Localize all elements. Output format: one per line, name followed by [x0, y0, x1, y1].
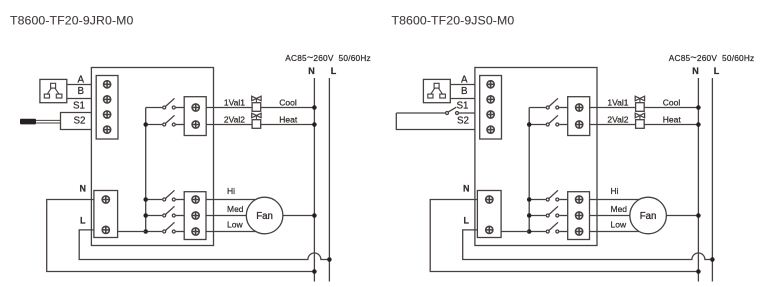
svg-text:S1: S1: [73, 101, 85, 112]
wire relay switch K4 (Med) to terminal: [176, 215, 184, 217]
power terminal block N/L: [477, 191, 501, 238]
L supply wire (vertical): [328, 78, 330, 282]
terminal S2 screw: [487, 126, 494, 133]
wire relay switch K3 (Hi) to terminal: [176, 199, 184, 201]
svg-text:AC85~260V 50/60Hz: AC85~260V 50/60Hz: [285, 52, 371, 64]
wire bus to relay switch K3 (Hi): [146, 199, 162, 201]
L feed wire with hop over N: [463, 230, 713, 260]
svg-text:Cool: Cool: [279, 98, 297, 108]
junction L feed/L: [327, 257, 332, 262]
wire switch to S1 terminal: [459, 112, 475, 114]
terminal S2 screw: [104, 126, 111, 133]
fan terminal Hi screw: [576, 196, 583, 203]
sensor lead wires: [36, 120, 61, 123]
svg-text:S1: S1: [457, 101, 469, 112]
svg-text:L: L: [714, 66, 720, 76]
svg-text:Med: Med: [227, 204, 244, 214]
fan motor: [630, 197, 667, 234]
fan terminal block: [184, 192, 206, 240]
svg-text:L: L: [464, 215, 470, 225]
svg-text:Heat: Heat: [663, 115, 682, 125]
relay switch K3 (Hi): [163, 190, 176, 201]
wire relay switch K2 to terminal: [176, 124, 184, 126]
relay switch K2: [163, 115, 176, 126]
external switch (S1/S2): [446, 107, 459, 114]
L supply wire (vertical): [711, 78, 713, 282]
thermostat outline: [91, 68, 213, 246]
fan terminal Med screw: [192, 212, 199, 219]
svg-text:Heat: Heat: [279, 115, 298, 125]
sensor wire to S2: [61, 120, 92, 129]
valve terminal 2 screw: [192, 121, 199, 128]
wire fan to N: [283, 215, 315, 217]
relay switch K1: [546, 98, 559, 109]
terminal L screw: [102, 226, 109, 233]
wire bus to relay switch K4 (Med): [146, 215, 162, 217]
relay switch K2: [546, 115, 559, 126]
terminal L screw: [486, 226, 493, 233]
svg-text:2Val2: 2Val2: [607, 115, 628, 125]
fan terminal Low screw: [192, 228, 199, 235]
wire relay switch K1 to terminal: [176, 107, 184, 109]
thermostat outline: [475, 68, 597, 246]
wire Hi to fan: [206, 199, 256, 201]
svg-text:Hi: Hi: [611, 186, 619, 196]
wire Hi to fan: [590, 199, 640, 201]
power terminal block N/L: [94, 191, 118, 238]
svg-text:L: L: [80, 215, 86, 225]
wire bus to relay switch K3 (Hi): [529, 199, 545, 201]
terminal N screw: [486, 196, 493, 203]
wire bus to relay switch K1: [529, 107, 545, 109]
wire valve terminal to valve V1: [206, 107, 252, 109]
svg-text:Fan: Fan: [256, 211, 273, 222]
wire relay switch K4 (Med) to terminal: [559, 215, 567, 217]
valve terminal 2 screw: [576, 121, 583, 128]
wire bus to relay switch K5 (Low): [529, 231, 545, 233]
terminal block A/B/S1/S2: [480, 76, 502, 140]
wire valve terminal to valve V2: [206, 124, 252, 126]
N supply wire (vertical): [697, 78, 699, 282]
relay common bus: [145, 108, 147, 232]
wire bus to relay switch K1: [146, 107, 162, 109]
valve terminal 1 screw: [576, 104, 583, 111]
terminal A screw: [104, 81, 111, 88]
svg-text:T8600-TF20-9JR0-M0: T8600-TF20-9JR0-M0: [10, 14, 134, 28]
valve terminal block: [184, 97, 206, 136]
junction bus/K3: [143, 197, 148, 202]
svg-text:Cool: Cool: [663, 98, 681, 108]
wire L terminal to bus: [501, 231, 529, 233]
svg-text:N: N: [80, 183, 87, 193]
wire L terminal to bus: [118, 231, 146, 233]
wire valve V1 to N: [261, 107, 315, 109]
wire relay switch K1 to terminal: [559, 107, 567, 109]
wire S1 to external switch: [396, 112, 445, 114]
wire valve terminal to valve V2: [590, 124, 636, 126]
fan terminal block: [568, 192, 590, 240]
communication module (network icon): [40, 79, 67, 102]
svg-text:1Val1: 1Val1: [224, 98, 245, 108]
junction fan/N: [312, 213, 317, 218]
valve V2: [635, 113, 644, 128]
terminal B screw: [104, 96, 111, 103]
wire valve V2 to N: [261, 124, 315, 126]
left diagram: T8600-TF20-9JR0-M0: [10, 14, 371, 282]
svg-text:N: N: [308, 66, 315, 76]
wire bus to relay switch K4 (Med): [529, 215, 545, 217]
wire fan to N: [666, 215, 698, 217]
wire A: [451, 84, 475, 86]
terminal block A/B/S1/S2: [96, 76, 118, 140]
valve V1: [252, 96, 261, 111]
wire bus to relay switch K2: [146, 124, 162, 126]
relay common bus: [528, 108, 530, 232]
valve terminal 1 screw: [192, 104, 199, 111]
fan motor: [246, 197, 283, 234]
switch loop wire to S2: [396, 113, 475, 130]
valve V1: [635, 96, 644, 111]
svg-text:Hi: Hi: [227, 186, 235, 196]
terminal A screw: [487, 81, 494, 88]
relay switch K5 (Low): [546, 222, 559, 233]
svg-text:Low: Low: [227, 220, 243, 230]
relay switch K1: [163, 98, 176, 109]
N supply wire (vertical): [313, 78, 315, 282]
svg-text:Fan: Fan: [640, 211, 657, 222]
wire valve terminal to valve V1: [590, 107, 636, 109]
N return wire: [47, 200, 315, 272]
sensor wire to S1: [61, 113, 92, 121]
junction valve V2/N: [312, 122, 317, 127]
temperature sensor probe: [20, 119, 36, 125]
svg-text:N: N: [692, 66, 699, 76]
wire Med to fan: [206, 215, 246, 217]
svg-text:B: B: [77, 86, 84, 97]
svg-text:2Val2: 2Val2: [224, 115, 245, 125]
junction bus/K2: [143, 122, 148, 127]
fan terminal Hi screw: [192, 196, 199, 203]
junction valve V1/N: [696, 105, 701, 110]
wire Med to fan: [590, 215, 630, 217]
junction valve V1/N: [312, 105, 317, 110]
fan terminal Low screw: [576, 228, 583, 235]
svg-text:S2: S2: [457, 116, 469, 127]
wire bus to relay switch K5 (Low): [146, 231, 162, 233]
terminal S1 screw: [487, 111, 494, 118]
terminal N screw: [102, 196, 109, 203]
junction N return/N: [312, 269, 317, 274]
svg-text:N: N: [463, 183, 470, 193]
wire bus to relay switch K2: [529, 124, 545, 126]
wire B: [67, 98, 91, 100]
wire relay switch K2 to terminal: [559, 124, 567, 126]
svg-text:1Val1: 1Val1: [607, 98, 628, 108]
junction bus/K3: [527, 197, 532, 202]
wire Low to fan: [206, 231, 256, 233]
junction L feed/L: [710, 257, 715, 262]
svg-text:Low: Low: [611, 220, 627, 230]
wire relay switch K5 (Low) to terminal: [559, 231, 567, 233]
junction N return/N: [696, 269, 701, 274]
svg-text:AC85~260V 50/60Hz: AC85~260V 50/60Hz: [669, 52, 755, 64]
wire valve V1 to N: [644, 107, 698, 109]
relay switch K4 (Med): [163, 206, 176, 217]
wire relay switch K5 (Low) to terminal: [176, 231, 184, 233]
svg-text:L: L: [331, 66, 337, 76]
junction bus/K5: [143, 229, 148, 234]
junction bus/K2: [527, 122, 532, 127]
relay switch K5 (Low): [163, 222, 176, 233]
relay switch K3 (Hi): [546, 190, 559, 201]
N return wire: [430, 200, 698, 272]
wire valve V2 to N: [644, 124, 698, 126]
right diagram: T8600-TF20-9JS0-M0: [392, 14, 755, 282]
valve terminal block: [568, 97, 590, 136]
junction bus/K5: [527, 229, 532, 234]
wire B: [451, 98, 475, 100]
L feed wire with hop over N: [79, 230, 329, 260]
junction bus/K4: [527, 213, 532, 218]
svg-text:T8600-TF20-9JS0-M0: T8600-TF20-9JS0-M0: [392, 14, 515, 28]
communication module (network icon): [423, 79, 450, 102]
junction valve V2/N: [696, 122, 701, 127]
terminal B screw: [487, 96, 494, 103]
junction bus/K4: [143, 213, 148, 218]
fan terminal Med screw: [576, 212, 583, 219]
junction fan/N: [696, 213, 701, 218]
terminal S1 screw: [104, 111, 111, 118]
svg-text:S2: S2: [74, 116, 86, 127]
wire A: [67, 84, 91, 86]
wire Low to fan: [590, 231, 640, 233]
svg-text:Med: Med: [611, 204, 628, 214]
valve V2: [252, 113, 261, 128]
relay switch K4 (Med): [546, 206, 559, 217]
wire relay switch K3 (Hi) to terminal: [559, 199, 567, 201]
svg-text:B: B: [461, 86, 468, 97]
